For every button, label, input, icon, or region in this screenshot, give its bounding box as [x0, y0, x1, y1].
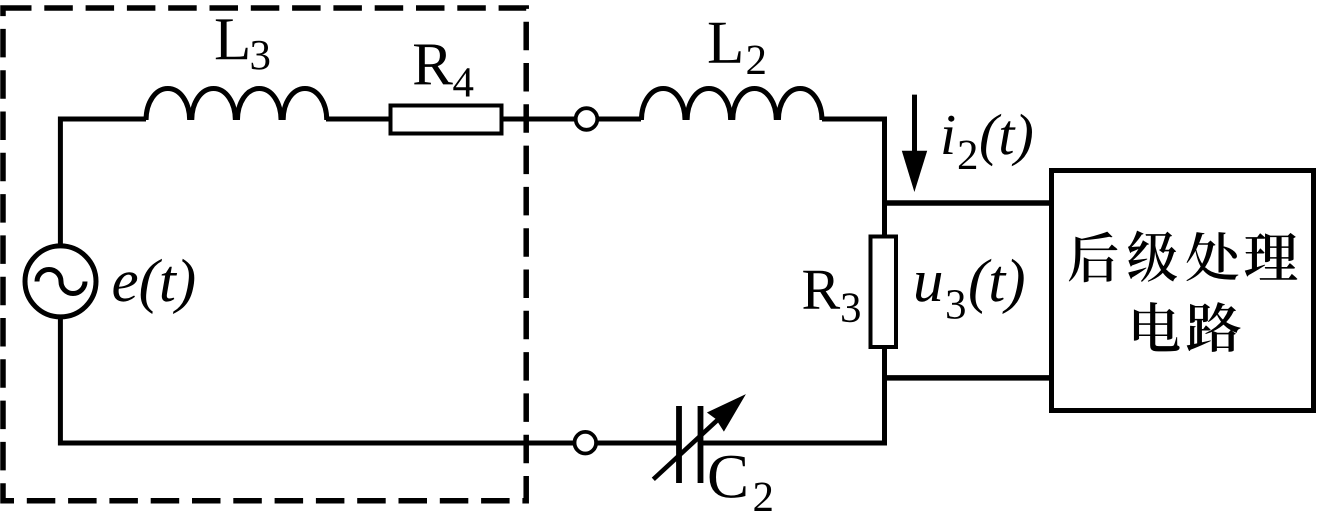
label R3: [803, 271, 840, 309]
post-processing circuit box: [1052, 171, 1314, 411]
label C2: [710, 456, 746, 498]
wire: source bottom, down and right to bottom terminal: [60, 317, 574, 444]
resistor R3: [871, 237, 897, 348]
wire: R4 through dashed border to top terminal: [502, 117, 577, 122]
AC source e(t): [25, 246, 96, 317]
C2 variable arrow shaft: [653, 420, 718, 480]
C2 arrowhead: [707, 394, 746, 432]
char 级: [1128, 231, 1177, 282]
char 路: [1187, 302, 1241, 352]
label R4: [414, 45, 453, 85]
wire: bottom terminal to C2: [598, 441, 679, 446]
inductor L2: [641, 89, 822, 121]
wire: L2 right, corner down to R3: [822, 119, 885, 238]
wire: source top up and right to L3: [60, 119, 146, 247]
label i2(t): [943, 116, 954, 154]
box text 后级处理 电路: [1069, 231, 1298, 352]
label L2: [709, 23, 741, 63]
label u3(t): [916, 273, 941, 302]
wire: lower branch to box: [885, 375, 1052, 381]
current arrow i2(t): shaft: [912, 95, 917, 152]
char 电: [1134, 302, 1180, 351]
wire: R3 bottom to bottom rail: [702, 346, 885, 443]
char 后: [1069, 232, 1118, 283]
wire: upper branch to box: [885, 200, 1052, 206]
dashed boundary box (sensor enclosure): [3, 8, 526, 501]
bottom terminal (open circle): [575, 432, 597, 454]
wire: L3 to R4: [326, 117, 392, 122]
current arrowhead: [902, 151, 927, 192]
char 理: [1245, 233, 1298, 280]
wire: terminal to L2: [598, 117, 642, 122]
resistor R4: [391, 106, 502, 134]
char 处: [1186, 232, 1238, 281]
capacitor C2 plates: [679, 406, 701, 483]
label L3: [216, 19, 248, 59]
label e(t): [113, 259, 194, 314]
inductor L3: [146, 89, 327, 121]
top terminal (open circle): [576, 108, 598, 130]
